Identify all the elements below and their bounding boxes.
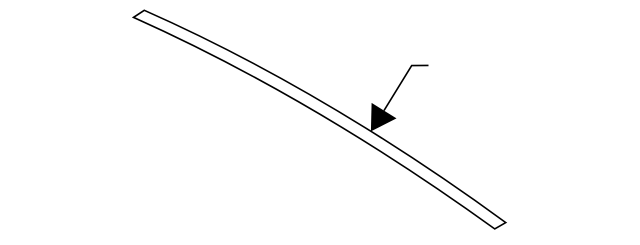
- leader line: [384, 65, 429, 110]
- arrowhead: [371, 103, 397, 131]
- molding strip outline: [134, 10, 506, 229]
